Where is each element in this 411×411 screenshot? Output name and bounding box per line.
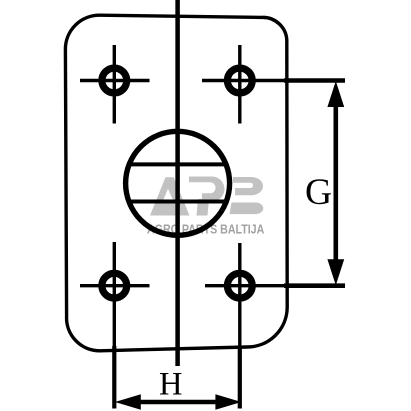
bolt hole top-right crosshair horizontal + G extension line top <box>202 79 286 82</box>
bolt hole top-left crosshair vertical <box>113 45 116 124</box>
upper chord line <box>128 162 228 166</box>
flange outline <box>65 15 287 351</box>
dimension G arrow down <box>327 259 344 285</box>
bolt hole top-right ring <box>227 68 252 93</box>
bolt hole top-right crosshair vertical <box>238 45 241 124</box>
svg-text:G: G <box>305 172 332 213</box>
watermark APB logo letter P <box>189 177 224 216</box>
vertical centerline <box>175 0 180 366</box>
bolt hole bottom-right crosshair horizontal + G extension line bottom <box>205 284 286 287</box>
watermark APB logo letter B <box>230 177 264 214</box>
bolt hole bottom-left crosshair vertical + H extension line left <box>113 242 116 348</box>
lower chord line <box>128 200 228 204</box>
svg-text:H: H <box>159 367 182 403</box>
bolt hole bottom-left ring <box>102 273 127 298</box>
dimension H arrow left <box>115 394 141 409</box>
dimension H arrow right <box>215 394 241 409</box>
watermark APB logo letter A <box>150 177 190 215</box>
bolt hole top-left crosshair horizontal <box>80 79 150 82</box>
bolt hole bottom-right crosshair vertical + H extension line right <box>238 243 241 348</box>
dimension H line <box>125 400 230 405</box>
dimension G line <box>333 92 338 275</box>
dimension G arrow up <box>327 81 344 107</box>
bolt hole bottom-left crosshair horizontal <box>80 284 150 287</box>
bolt hole top-left ring <box>102 68 127 93</box>
bolt hole bottom-right ring <box>227 273 252 298</box>
port circle <box>126 131 230 235</box>
